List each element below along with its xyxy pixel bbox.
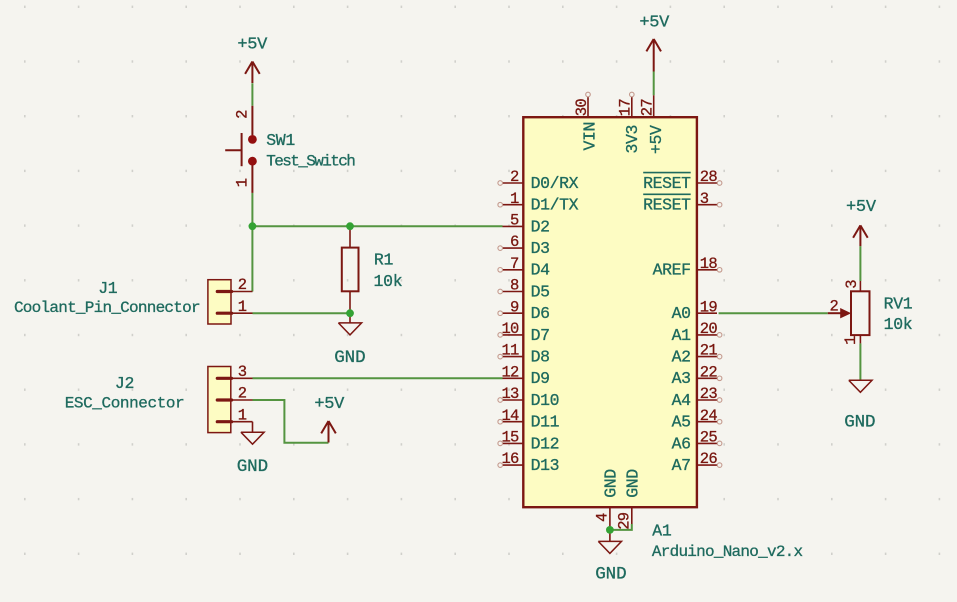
svg-text:2: 2 — [238, 276, 247, 294]
svg-text:19: 19 — [700, 298, 718, 316]
svg-text:3: 3 — [238, 363, 247, 381]
svg-text:3V3: 3V3 — [623, 125, 642, 154]
svg-text:SW1: SW1 — [266, 131, 295, 150]
svg-text:AREF: AREF — [653, 261, 691, 280]
svg-text:GND: GND — [334, 348, 365, 368]
svg-text:4: 4 — [593, 513, 611, 522]
svg-text:D3: D3 — [531, 239, 550, 258]
svg-text:D7: D7 — [531, 326, 550, 345]
svg-text:+5V: +5V — [237, 35, 268, 54]
svg-text:GND: GND — [623, 469, 642, 498]
svg-text:J2: J2 — [115, 374, 134, 393]
svg-text:+5V: +5V — [639, 14, 670, 33]
svg-text:D10: D10 — [531, 391, 560, 410]
svg-text:Test_Switch: Test_Switch — [266, 153, 355, 171]
svg-text:D5: D5 — [531, 282, 550, 301]
svg-text:A6: A6 — [672, 434, 691, 453]
svg-text:A0: A0 — [672, 304, 691, 323]
svg-text:D4: D4 — [531, 261, 551, 280]
svg-text:25: 25 — [700, 429, 718, 447]
svg-text:26: 26 — [700, 450, 718, 468]
svg-text:2: 2 — [510, 168, 519, 186]
svg-text:R1: R1 — [374, 250, 394, 269]
svg-text:1: 1 — [238, 298, 247, 316]
svg-text:24: 24 — [700, 407, 718, 425]
svg-text:1: 1 — [510, 190, 519, 208]
svg-text:GND: GND — [595, 565, 626, 585]
svg-text:15: 15 — [501, 429, 519, 447]
svg-text:+5V: +5V — [647, 125, 666, 154]
svg-text:1: 1 — [234, 178, 252, 187]
svg-text:D6: D6 — [531, 304, 550, 323]
svg-text:27: 27 — [639, 99, 657, 117]
svg-text:20: 20 — [700, 320, 718, 338]
svg-text:J1: J1 — [98, 279, 118, 298]
svg-text:10k: 10k — [374, 272, 403, 291]
svg-text:11: 11 — [501, 342, 519, 360]
svg-text:3: 3 — [843, 280, 861, 289]
svg-text:RESET: RESET — [643, 196, 691, 215]
svg-text:2: 2 — [829, 297, 838, 315]
svg-text:A7: A7 — [672, 456, 691, 475]
svg-text:30: 30 — [573, 99, 591, 117]
svg-text:22: 22 — [700, 363, 718, 381]
svg-text:7: 7 — [510, 255, 519, 273]
svg-text:RV1: RV1 — [884, 295, 913, 314]
svg-text:D2: D2 — [531, 217, 550, 236]
svg-text:VIN: VIN — [581, 122, 600, 151]
svg-text:23: 23 — [700, 385, 718, 403]
svg-text:10: 10 — [501, 320, 519, 338]
svg-text:GND: GND — [237, 457, 268, 477]
svg-text:GND: GND — [601, 469, 620, 498]
svg-text:1: 1 — [842, 336, 860, 345]
svg-text:Coolant_Pin_Connector: Coolant_Pin_Connector — [14, 299, 200, 317]
svg-text:D8: D8 — [531, 348, 550, 367]
svg-text:+5V: +5V — [846, 198, 877, 217]
svg-text:3: 3 — [700, 190, 709, 208]
svg-text:D12: D12 — [531, 434, 560, 453]
svg-text:1: 1 — [238, 406, 247, 424]
svg-text:D9: D9 — [531, 369, 550, 388]
svg-text:29: 29 — [615, 512, 633, 530]
svg-text:A1: A1 — [652, 522, 672, 541]
svg-text:D1/TX: D1/TX — [531, 196, 579, 215]
svg-text:D0/RX: D0/RX — [531, 174, 579, 193]
svg-text:A1: A1 — [672, 326, 692, 345]
svg-text:A2: A2 — [672, 348, 691, 367]
svg-text:5: 5 — [510, 212, 519, 230]
svg-text:28: 28 — [700, 168, 718, 186]
svg-text:D13: D13 — [531, 456, 560, 475]
svg-text:14: 14 — [501, 407, 519, 425]
svg-text:9: 9 — [510, 298, 519, 316]
svg-text:13: 13 — [501, 385, 519, 403]
svg-text:A4: A4 — [672, 391, 692, 410]
svg-text:21: 21 — [700, 342, 718, 360]
svg-text:RESET: RESET — [643, 174, 691, 193]
svg-text:A3: A3 — [672, 369, 691, 388]
svg-text:D11: D11 — [531, 413, 560, 432]
svg-text:GND: GND — [844, 412, 875, 432]
svg-text:ESC_Connector: ESC_Connector — [65, 395, 185, 413]
svg-text:8: 8 — [510, 277, 519, 295]
svg-text:12: 12 — [501, 363, 519, 381]
svg-text:10k: 10k — [884, 315, 913, 334]
svg-text:Arduino_Nano_v2.x: Arduino_Nano_v2.x — [652, 543, 803, 561]
svg-text:+5V: +5V — [314, 395, 345, 414]
svg-text:A5: A5 — [672, 413, 691, 432]
svg-text:2: 2 — [238, 385, 247, 403]
svg-text:17: 17 — [617, 99, 635, 117]
svg-text:18: 18 — [700, 255, 718, 273]
svg-text:2: 2 — [234, 110, 252, 119]
svg-text:6: 6 — [510, 233, 519, 251]
svg-text:16: 16 — [501, 450, 519, 468]
